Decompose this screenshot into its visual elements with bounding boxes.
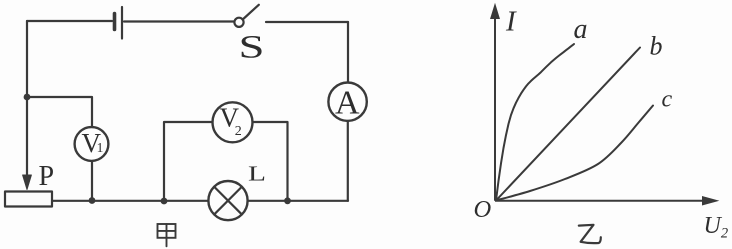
wire V2 branch left — [164, 122, 212, 201]
wire right vertical down to ammeter — [347, 22, 349, 83]
ammeter A — [328, 83, 366, 121]
svg-text:P: P — [39, 161, 55, 192]
axis U2 horizontal — [495, 197, 718, 205]
wire ammeter to bottom wire — [347, 121, 349, 201]
lamp L — [208, 181, 247, 220]
battery B1 — [115, 7, 123, 39]
wire bottom horizontal — [52, 200, 348, 202]
svg-text:c: c — [662, 86, 673, 112]
wire V1 to bottom — [91, 162, 93, 201]
label yi — [579, 225, 601, 243]
svg-text:a: a — [574, 14, 588, 45]
wire V2 branch right — [253, 122, 288, 201]
svg-text:b: b — [650, 32, 663, 61]
node junction left — [24, 94, 31, 101]
curve b — [496, 48, 640, 201]
svg-text:A: A — [335, 84, 360, 121]
svg-text:L: L — [248, 162, 266, 186]
wire battery to switch — [124, 20, 234, 22]
wire junction to V1 branch — [27, 97, 92, 127]
node junction V1 bottom — [89, 197, 96, 204]
svg-text:O: O — [474, 196, 492, 223]
svg-text:I: I — [505, 6, 517, 38]
axis I vertical — [491, 5, 500, 201]
switch S — [234, 5, 258, 27]
svg-text:S: S — [239, 30, 265, 66]
svg-text:U2: U2 — [704, 213, 729, 242]
node junction lamp left — [161, 198, 168, 205]
label jia — [158, 224, 176, 246]
wire wiper arm — [26, 97, 28, 176]
wire switch to top-right corner — [266, 21, 348, 23]
node junction lamp right — [284, 197, 291, 204]
svg-text:V1: V1 — [82, 128, 104, 158]
curve c — [496, 106, 653, 201]
voltmeter V2 — [213, 102, 253, 142]
rheostat P — [5, 192, 52, 207]
voltmeter V1 — [75, 127, 109, 161]
wiper arrowhead — [23, 175, 32, 190]
curve a — [496, 44, 574, 201]
wire left vertical — [26, 21, 28, 97]
wire top-left horizontal — [27, 20, 112, 22]
